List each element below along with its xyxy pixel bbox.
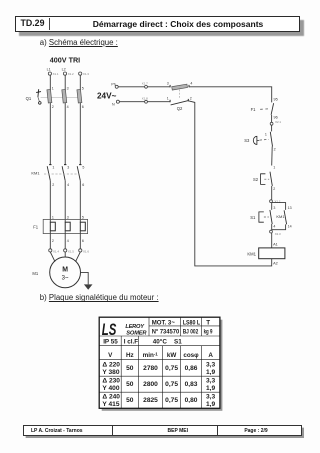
nameplate SVG placeholder xyxy=(96,313,226,413)
svg-text:I cl.F: I cl.F xyxy=(124,339,138,346)
svg-text:S3: S3 xyxy=(244,138,250,143)
svg-text:4: 4 xyxy=(190,82,192,86)
svg-text:X1.7: X1.7 xyxy=(142,81,148,85)
node L1 xyxy=(47,68,51,72)
wire X1.5 to motor xyxy=(64,252,66,257)
wire L3 phase xyxy=(79,75,81,164)
svg-text:KM1: KM1 xyxy=(247,251,256,256)
label 24V~ xyxy=(97,92,117,101)
svg-text:3~: 3~ xyxy=(62,276,69,282)
svg-text:3: 3 xyxy=(67,216,69,220)
label S2 xyxy=(253,177,259,182)
svg-text:kW: kW xyxy=(167,352,177,359)
svg-text:3: 3 xyxy=(67,87,69,91)
label M1 xyxy=(32,271,38,276)
wire KM1 to F1 pole 2 xyxy=(64,181,66,223)
svg-text:6: 6 xyxy=(82,183,84,187)
S1 pin 4 xyxy=(273,225,275,229)
svg-text:KM1: KM1 xyxy=(276,214,285,219)
svg-text:MOT. 3~: MOT. 3~ xyxy=(152,320,175,327)
svg-text:13: 13 xyxy=(288,206,292,210)
svg-text:S2: S2 xyxy=(253,177,259,182)
svg-text:3: 3 xyxy=(67,165,69,169)
wire Ph to X1.7 xyxy=(118,86,144,88)
heading a xyxy=(40,38,118,47)
svg-text:BJ 002: BJ 002 xyxy=(183,328,199,335)
svg-text:6: 6 xyxy=(82,239,84,243)
Q2 pin 4 xyxy=(189,82,192,88)
KM1 aux pin 14 xyxy=(288,225,292,229)
Q1 fuse pole 3 xyxy=(77,87,84,109)
node N xyxy=(112,100,119,106)
svg-text:1: 1 xyxy=(167,97,169,101)
Q2 pin 3 xyxy=(167,82,170,88)
coil pin A2 xyxy=(273,262,278,266)
svg-text:X2.3: X2.3 xyxy=(275,232,281,236)
label KM1 (coil) xyxy=(247,251,256,256)
F1 NC contact blade xyxy=(271,103,274,115)
svg-text:1: 1 xyxy=(52,87,54,91)
terminal X1.1 xyxy=(48,72,59,76)
nameplate data row 2 xyxy=(102,377,215,392)
svg-text:95: 95 xyxy=(274,97,278,101)
S3 pin 1 xyxy=(265,133,267,137)
KM1 mechanical linkage xyxy=(44,173,79,175)
nameplate column headers xyxy=(108,351,213,359)
terminal X2.2 xyxy=(270,199,281,203)
svg-text:2: 2 xyxy=(52,105,54,109)
svg-text:S1: S1 xyxy=(174,339,182,346)
svg-text:Q2: Q2 xyxy=(177,106,183,111)
svg-text:5: 5 xyxy=(82,87,84,91)
node L2 xyxy=(62,68,66,72)
svg-text:50: 50 xyxy=(126,381,134,388)
svg-text:cosφ: cosφ xyxy=(183,352,199,359)
wire X1.8 to Q2 pin 1 xyxy=(147,101,170,103)
wire KM1 aux branch bottom xyxy=(272,224,286,229)
svg-text:2800: 2800 xyxy=(143,381,158,388)
svg-text:2: 2 xyxy=(274,147,276,151)
contactor KM1 pole 2 xyxy=(62,165,69,188)
thermal overload relay F1 box xyxy=(43,219,87,233)
KM1 aux contact blade xyxy=(284,210,287,224)
wire S3 to S2 xyxy=(271,146,274,165)
F1 NC contact pin 96 xyxy=(274,115,278,119)
nameplate frame xyxy=(99,317,220,408)
F1 thermal element pole 2 xyxy=(65,216,70,244)
svg-text:LEROY: LEROY xyxy=(125,324,145,330)
Q2 switch blade (N pole) xyxy=(171,101,189,105)
F1 thermal element pole 3 xyxy=(80,216,85,244)
svg-text:X1.5: X1.5 xyxy=(68,249,74,253)
svg-text:F1: F1 xyxy=(33,224,39,229)
motor earth wire xyxy=(81,272,89,284)
svg-text:Y 400: Y 400 xyxy=(102,385,119,392)
terminal X1.8 xyxy=(142,96,148,103)
svg-text:X1.2: X1.2 xyxy=(68,72,74,76)
S2 flat-head actuator xyxy=(261,174,266,185)
svg-text:X2.1: X2.1 xyxy=(275,120,281,124)
nameplate data row 3 xyxy=(102,394,215,409)
svg-text:0,86: 0,86 xyxy=(185,365,198,372)
wire X1.4 to motor xyxy=(50,252,55,262)
terminal X1.7 xyxy=(142,81,148,88)
terminal X1.2 xyxy=(63,72,74,76)
svg-text:S1: S1 xyxy=(250,215,256,220)
svg-text:X1.6: X1.6 xyxy=(83,249,89,253)
svg-text:14: 14 xyxy=(288,225,292,229)
svg-text:X1.4: X1.4 xyxy=(53,249,59,253)
svg-text:5: 5 xyxy=(82,216,84,220)
svg-text:LS80 L: LS80 L xyxy=(183,320,201,327)
svg-text:LS: LS xyxy=(102,321,117,339)
wire Q2 pin 4 to phase rail corner xyxy=(189,87,272,103)
svg-text:4: 4 xyxy=(67,105,69,109)
wire KM1 aux branch top xyxy=(272,203,286,210)
svg-text:0,75: 0,75 xyxy=(165,381,178,388)
svg-text:Ph: Ph xyxy=(111,82,115,86)
svg-text:SOMER: SOMER xyxy=(126,331,147,337)
F1 NC contact pin 95 xyxy=(274,97,278,101)
svg-text:2780: 2780 xyxy=(143,365,158,372)
KM1 aux pin 13 xyxy=(288,206,292,210)
node split S1/KM1 xyxy=(271,203,273,210)
F1 thermal element pole 1 xyxy=(50,216,55,244)
svg-text:0,75: 0,75 xyxy=(165,365,178,372)
F1 NC contact actuator dashes xyxy=(260,108,269,111)
S1 pin 3 xyxy=(273,206,275,210)
label S1 xyxy=(250,215,256,220)
wire F1 to X1.5 xyxy=(64,231,66,249)
wire F1 to X1.4 xyxy=(49,231,51,249)
svg-text:0,83: 0,83 xyxy=(185,381,198,388)
svg-text:50: 50 xyxy=(126,397,134,404)
svg-text:Δ 240: Δ 240 xyxy=(102,394,120,401)
S3 actuator dashes xyxy=(260,138,269,141)
wire L2 phase xyxy=(64,75,66,164)
label S3 xyxy=(244,138,250,143)
label KM1 (aux) xyxy=(276,214,285,219)
label Q2 xyxy=(177,106,183,111)
Q2 pin 1 xyxy=(167,97,170,103)
wire X1.6 to motor xyxy=(76,252,81,262)
S2 pin 1 xyxy=(273,166,275,170)
svg-text:2: 2 xyxy=(52,239,54,243)
label 400V TRI xyxy=(50,55,80,64)
terminal X1.5 xyxy=(64,249,75,254)
label KM1 (power) xyxy=(31,170,40,175)
svg-text:5: 5 xyxy=(82,165,84,169)
coil pin A1 xyxy=(273,242,278,246)
terminal X2.3 xyxy=(270,230,281,236)
svg-text:3: 3 xyxy=(167,82,169,86)
S2 actuator dashes xyxy=(264,178,269,180)
svg-text:1,9: 1,9 xyxy=(206,369,215,376)
S3 mushroom head xyxy=(253,136,259,144)
terminal X1.3 xyxy=(79,72,90,76)
Q2 mechanical linkage xyxy=(179,90,181,100)
terminal X1.4 xyxy=(49,249,60,254)
wire N to X1.8 xyxy=(119,101,144,103)
wire L1 phase xyxy=(49,75,51,164)
svg-text:KM1: KM1 xyxy=(31,170,40,175)
terminal X1.6 xyxy=(79,249,90,254)
wire Q2 pin 2 to neutral rail (return) xyxy=(188,101,271,266)
Q1 mechanical linkage xyxy=(41,96,81,98)
svg-text:400V TRI: 400V TRI xyxy=(50,55,80,64)
svg-text:Δ 230: Δ 230 xyxy=(102,377,120,384)
svg-text:X1.8: X1.8 xyxy=(142,96,148,100)
svg-text:1,9: 1,9 xyxy=(206,401,215,408)
svg-text:Q1: Q1 xyxy=(26,96,32,101)
svg-text:3,3: 3,3 xyxy=(206,361,215,368)
svg-text:2: 2 xyxy=(52,183,54,187)
wire KM1 to F1 pole 1 xyxy=(49,181,51,223)
nameplate shadow xyxy=(102,320,223,411)
svg-text:2: 2 xyxy=(190,97,192,101)
S1 flat-head actuator xyxy=(259,212,264,222)
nameplate data row 1 xyxy=(102,361,215,376)
nameplate grid lines xyxy=(99,317,220,408)
schematic SVG placeholder xyxy=(0,50,320,295)
svg-text:0,80: 0,80 xyxy=(185,397,198,404)
svg-text:6: 6 xyxy=(82,105,84,109)
svg-text:Y 415: Y 415 xyxy=(102,401,119,408)
pushbutton S1 blade xyxy=(270,210,272,224)
motor M1 xyxy=(50,257,81,288)
svg-text:40°C: 40°C xyxy=(153,338,168,346)
svg-text:Hz: Hz xyxy=(126,352,134,359)
svg-text:N: N xyxy=(112,103,115,107)
title box xyxy=(15,16,300,32)
label F1 (contact) xyxy=(251,107,257,112)
svg-text:A1: A1 xyxy=(273,242,278,246)
svg-text:1: 1 xyxy=(273,166,275,170)
svg-text:24V~: 24V~ xyxy=(97,92,117,101)
contactor KM1 pole 3 xyxy=(77,165,84,188)
svg-text:X1.3: X1.3 xyxy=(83,72,89,76)
pushbutton S2 blade xyxy=(270,172,272,186)
svg-text:L1: L1 xyxy=(47,68,51,72)
footer xyxy=(23,425,302,436)
svg-text:X1.1: X1.1 xyxy=(53,72,59,76)
svg-text:1,9: 1,9 xyxy=(206,385,215,392)
contactor KM1 pole 1 xyxy=(47,165,54,188)
svg-text:M: M xyxy=(62,266,68,273)
wire S1 to X2.3 xyxy=(271,224,273,230)
wire KM1 to F1 pole 3 xyxy=(79,181,81,223)
disconnector Q1 manual actuator xyxy=(36,89,41,104)
svg-text:F1: F1 xyxy=(251,107,257,112)
Q2 fuse-switch pole (Ph) xyxy=(172,84,188,90)
svg-text:1: 1 xyxy=(265,133,267,137)
svg-text:2825: 2825 xyxy=(143,397,158,404)
wire X2.1 to S3 xyxy=(271,125,273,131)
svg-text:kg 9: kg 9 xyxy=(204,328,213,335)
svg-text:4: 4 xyxy=(273,225,275,229)
svg-text:A: A xyxy=(208,352,213,359)
wire X1.7 to Q2 pin 3 xyxy=(147,86,170,88)
svg-text:1: 1 xyxy=(52,216,54,220)
svg-text:3: 3 xyxy=(273,206,275,210)
S3 pin 2 xyxy=(274,147,276,151)
svg-text:4: 4 xyxy=(67,183,69,187)
label F1 (overload) xyxy=(33,224,39,229)
wire 96 to X2.1 xyxy=(271,115,273,122)
heading b xyxy=(40,293,159,302)
svg-text:50: 50 xyxy=(126,365,134,372)
svg-text:Δ 220: Δ 220 xyxy=(102,361,120,368)
svg-text:1: 1 xyxy=(52,165,54,169)
terminal X2.1 xyxy=(270,120,281,125)
Q1 fuse pole 1 xyxy=(47,87,54,109)
pushbutton S3 blade xyxy=(270,132,272,147)
S1 actuator dashes xyxy=(264,216,269,218)
svg-text:A2: A2 xyxy=(273,262,278,266)
svg-text:N° 734570: N° 734570 xyxy=(152,327,180,335)
contactor coil KM1 xyxy=(259,248,285,259)
svg-text:T: T xyxy=(206,320,210,327)
svg-text:L2: L2 xyxy=(62,68,66,72)
wire F1 to X1.6 xyxy=(79,231,81,249)
svg-text:0,75: 0,75 xyxy=(165,397,178,404)
ground (earth symbol) xyxy=(84,284,93,289)
Q2 pin 2 xyxy=(188,97,191,102)
node Ph xyxy=(111,82,118,88)
svg-text:3,3: 3,3 xyxy=(206,394,215,401)
wire S2 to X2.2 xyxy=(271,186,273,200)
svg-text:4: 4 xyxy=(67,239,69,243)
wire X2.3 to coil A1 xyxy=(271,233,273,248)
svg-text:2: 2 xyxy=(273,187,275,191)
svg-text:Y 380: Y 380 xyxy=(102,369,119,376)
S2 pin 2 xyxy=(273,187,275,191)
svg-text:3,3: 3,3 xyxy=(206,377,215,384)
svg-text:96: 96 xyxy=(274,115,278,119)
Q1 fuse pole 2 xyxy=(62,87,69,109)
label Q1 xyxy=(26,96,32,101)
svg-text:M1: M1 xyxy=(32,271,38,276)
svg-text:IP 55: IP 55 xyxy=(103,339,118,346)
